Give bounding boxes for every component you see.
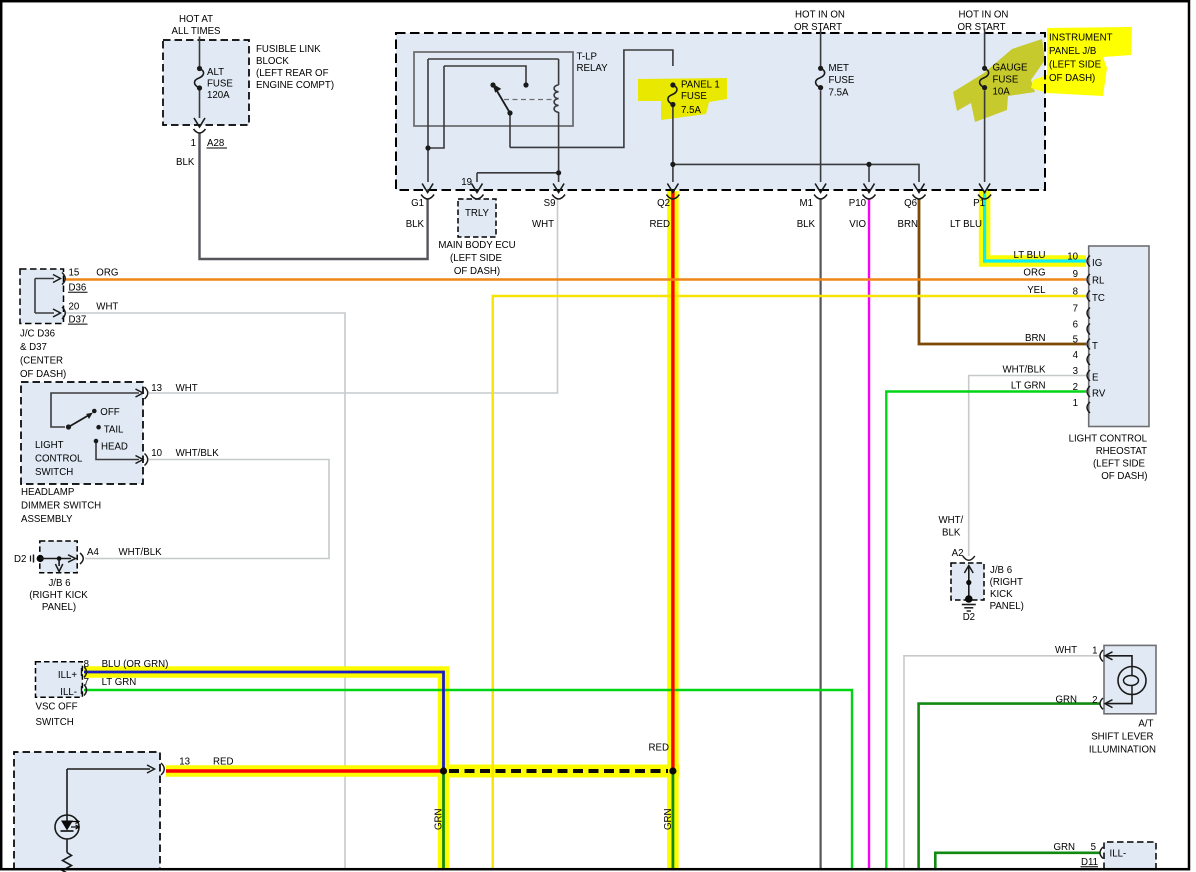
bottom-left lamp box fill: [14, 752, 160, 869]
svg-text:HOT IN ON: HOT IN ON: [959, 10, 1009, 21]
junction dot P10 branch: [866, 162, 871, 167]
svg-text:WHT: WHT: [532, 219, 554, 230]
relay coil arcs: [554, 85, 559, 112]
svg-text:7: 7: [1073, 304, 1078, 315]
wire RED lamp pin13 to junction: [166, 769, 444, 772]
junction dot small: [57, 556, 62, 561]
svg-text:HOT AT: HOT AT: [179, 14, 213, 25]
svg-text:BLK: BLK: [797, 219, 816, 230]
arrow down inside JB6: [58, 559, 60, 567]
svg-text:OR START: OR START: [957, 22, 1005, 33]
svg-text:Q2: Q2: [657, 198, 670, 209]
cup Q2: [666, 195, 679, 200]
wire to pin 13: [67, 768, 150, 770]
wire LT GRN VSC ILL-: [84, 690, 852, 868]
wire pin19 TRLY: [476, 173, 478, 182]
svg-text:GAUGE: GAUGE: [993, 63, 1029, 74]
VSC box border: [36, 662, 83, 698]
svg-text:FUSE: FUSE: [829, 75, 855, 86]
pin arc 1: [1087, 402, 1090, 413]
svg-text:LIGHT CONTROL: LIGHT CONTROL: [1069, 434, 1148, 445]
svg-text:(CENTER: (CENTER: [20, 355, 63, 366]
cup P1: [978, 195, 991, 200]
pin arrow 19: [472, 184, 483, 193]
fusible link block fill: [163, 40, 249, 125]
svg-text:(RIGHT: (RIGHT: [990, 577, 1023, 588]
svg-text:RHEOSTAT: RHEOSTAT: [1096, 446, 1147, 457]
pin arc 10 IG: [1087, 256, 1090, 267]
wire WHT D37 pin20 down: [66, 313, 345, 868]
light control switch box fill: [21, 382, 143, 484]
relay output loop to panel fuse: [510, 50, 673, 147]
main ECU box border: [396, 33, 1045, 190]
relay wire B fixed contact: [444, 66, 526, 83]
highlight band BLU from VSC: [84, 672, 444, 771]
svg-text:E: E: [1092, 373, 1099, 384]
svg-text:WHT/: WHT/: [939, 515, 964, 526]
pin arrow P1: [979, 184, 990, 193]
svg-text:OF DASH): OF DASH): [20, 369, 66, 380]
svg-text:RED: RED: [649, 743, 669, 754]
arrow up inside: [964, 566, 973, 574]
cup P10: [863, 195, 876, 200]
svg-text:VSC OFF: VSC OFF: [36, 702, 78, 713]
svg-text:BLK: BLK: [176, 157, 195, 168]
pin arc A4: [80, 553, 83, 564]
relay arm pivot down: [509, 113, 511, 147]
svg-text:(RIGHT KICK: (RIGHT KICK: [29, 590, 88, 601]
pivot dot: [66, 424, 71, 429]
svg-text:FUSE: FUSE: [993, 75, 1019, 86]
wire ALT fuse: [199, 40, 201, 66]
wire between pins: [34, 279, 36, 314]
cup 19: [471, 195, 484, 200]
svg-text:HEADLAMP: HEADLAMP: [21, 487, 74, 498]
highlight band Q2 red + GRN column: [667, 191, 679, 868]
pin arrow D36 15: [53, 275, 61, 283]
svg-text:6: 6: [1073, 320, 1078, 331]
pin arrow Q2: [667, 184, 678, 193]
svg-text:T: T: [1092, 341, 1098, 352]
junction dot coil-S9-19: [556, 170, 561, 175]
J/C D36 D37 box fill: [20, 269, 64, 324]
wire LT GRN rheostat pin2 RV down: [886, 392, 1086, 869]
svg-text:ILL-: ILL-: [60, 687, 77, 698]
svg-text:SWITCH: SWITCH: [35, 467, 73, 478]
svg-text:LT BLU: LT BLU: [1014, 250, 1046, 261]
terminal dot bottom: [965, 595, 973, 603]
T-LP relay box border: [414, 52, 573, 126]
svg-text:10: 10: [151, 448, 162, 459]
pin arc D11 5: [1100, 847, 1103, 859]
svg-text:(LEFT SIDE: (LEFT SIDE: [450, 253, 503, 264]
wire BRN Q6 to rheostat pin5: [919, 199, 1086, 344]
pin arc AT 2: [1100, 698, 1103, 709]
TRLY box fill: [458, 199, 496, 237]
svg-text:OFF: OFF: [100, 407, 119, 418]
relay dashed actuator link: [504, 99, 553, 101]
svg-text:120A: 120A: [207, 90, 230, 101]
svg-text:OF DASH): OF DASH): [1049, 73, 1095, 84]
pin arc D37 20: [62, 307, 65, 319]
svg-text:T-LP: T-LP: [577, 52, 597, 63]
bulb wiring: [1106, 656, 1132, 704]
wire WHT S9 to switch pin13: [149, 199, 558, 393]
wire down to LED: [66, 769, 68, 815]
svg-text:2: 2: [1073, 382, 1078, 393]
J/B 6 left box fill: [40, 541, 77, 573]
svg-text:15: 15: [69, 268, 80, 279]
svg-text:GRN: GRN: [1055, 695, 1077, 706]
svg-text:WHT: WHT: [1055, 645, 1077, 656]
wire RED Q2 down: [671, 191, 674, 771]
svg-text:(LEFT SIDE: (LEFT SIDE: [1049, 60, 1102, 71]
arrow right A4: [68, 555, 76, 562]
svg-text:(LEFT REAR OF: (LEFT REAR OF: [256, 68, 329, 79]
pin arc 9 RL: [1087, 274, 1090, 285]
wire GRN D11 pin5: [935, 853, 1100, 868]
svg-text:LT GRN: LT GRN: [102, 677, 137, 688]
svg-text:MAIN BODY ECU: MAIN BODY ECU: [438, 240, 515, 251]
svg-text:INSTRUMENT: INSTRUMENT: [1049, 33, 1113, 44]
svg-text:FUSE: FUSE: [681, 91, 707, 102]
svg-text:8: 8: [1073, 287, 1078, 298]
wire GRN A/T pin2: [919, 704, 1100, 868]
wire MET fuse column: [820, 33, 822, 66]
J/C D36 D37 box border: [20, 269, 64, 324]
svg-text:RV: RV: [1092, 389, 1106, 400]
svg-text:ENGINE COMPT): ENGINE COMPT): [256, 80, 334, 91]
svg-text:SHIFT LEVER: SHIFT LEVER: [1091, 732, 1153, 743]
pin arc 6: [1087, 324, 1090, 335]
wire pin13 to pivot: [51, 393, 139, 427]
pin arrow A28 fusible: [194, 118, 205, 127]
pin arrow 13 lamp: [147, 765, 155, 773]
relay contact dot NO: [490, 82, 495, 87]
wire WHT A/T pin1: [904, 656, 1100, 868]
pin arc 4: [1087, 354, 1090, 365]
svg-text:BLU (OR GRN): BLU (OR GRN): [102, 659, 169, 670]
svg-text:3: 3: [1073, 366, 1078, 377]
pin arc 7: [1087, 308, 1090, 319]
svg-text:GRN: GRN: [1053, 842, 1075, 853]
VSC off switch box fill: [36, 662, 83, 698]
svg-text:WHT/BLK: WHT/BLK: [1002, 365, 1046, 376]
svg-text:BLK: BLK: [942, 528, 961, 539]
main body ECU / instrument panel J/B box fill: [396, 33, 1045, 190]
svg-text:1: 1: [1073, 398, 1078, 409]
svg-text:D2: D2: [14, 554, 26, 565]
relay pivot dot: [507, 110, 512, 115]
junction dot wireA-G1: [425, 145, 430, 150]
svg-text:BLOCK: BLOCK: [256, 56, 289, 67]
wire BLK M1 down: [819, 199, 821, 868]
wire dashed link between junctions: [449, 769, 668, 773]
svg-text:BRN: BRN: [898, 219, 918, 230]
svg-text:ORG: ORG: [1023, 268, 1045, 279]
pin arc 3 E: [1087, 370, 1090, 381]
fuse symbol GAUGE: [980, 66, 989, 90]
LED triangle: [61, 821, 73, 831]
svg-text:PANEL 1: PANEL 1: [681, 80, 720, 91]
wire top of LED stem: [66, 815, 68, 821]
contact dot TAIL: [96, 425, 101, 430]
svg-text:ORG: ORG: [96, 268, 118, 279]
svg-text:P1: P1: [973, 198, 985, 209]
svg-text:D2: D2: [963, 612, 975, 623]
contact dot OFF: [92, 409, 97, 414]
svg-text:ASSEMBLY: ASSEMBLY: [21, 514, 73, 525]
fusible link block border: [163, 40, 249, 125]
relay wire A coil top: [428, 58, 559, 60]
svg-text:9: 9: [1073, 269, 1078, 280]
wire ORG D36 pin15 to rheostat pin9: [66, 278, 1086, 280]
svg-text:BLK: BLK: [406, 219, 425, 230]
pin arc 13 lamp: [161, 763, 164, 775]
wire S9 arrow: [558, 173, 560, 182]
highlight blob GAUGE FUSE (inside box, olive): [953, 39, 1045, 122]
wire BLK A28 to G1: [200, 134, 428, 260]
svg-text:CONTROL: CONTROL: [35, 454, 83, 465]
wire GRN below junction right: [672, 771, 675, 868]
pin tick D2 left: [33, 555, 35, 563]
svg-text:7: 7: [84, 677, 89, 688]
svg-text:J/B 6: J/B 6: [48, 578, 70, 589]
relay switch arm: [497, 91, 510, 113]
pin arc 5 T: [1087, 339, 1090, 350]
rheostat box border: [1089, 246, 1149, 427]
highlight blob INSTRUMENT PANEL J/B text: [1031, 27, 1132, 96]
svg-text:HOT IN ON: HOT IN ON: [795, 10, 845, 21]
bottom-left lamp box border: [14, 752, 160, 870]
relay coil line: [558, 59, 560, 85]
wire LT BLU P1 to rheostat pin10: [985, 191, 1086, 261]
contact dot HEAD: [94, 439, 99, 444]
bulb circle: [1118, 667, 1146, 695]
svg-text:YEL: YEL: [1027, 285, 1046, 296]
svg-text:PANEL): PANEL): [990, 601, 1024, 612]
svg-text:ALT: ALT: [207, 67, 224, 78]
svg-text:13: 13: [179, 757, 190, 768]
resistor zigzag: [63, 853, 72, 872]
cup S9: [552, 195, 565, 200]
svg-text:HEAD: HEAD: [101, 442, 128, 453]
highlight band dashed link: [437, 765, 679, 778]
svg-text:GRN: GRN: [434, 808, 445, 830]
J/B6 right box border: [951, 563, 984, 600]
wire WHT/BLK rheostat pin3 E to A2: [969, 376, 1086, 557]
svg-text:ILLUMINATION: ILLUMINATION: [1089, 745, 1156, 756]
J/B 6 right box fill: [951, 563, 984, 600]
LED circle: [55, 815, 79, 839]
svg-text:WHT: WHT: [176, 383, 198, 394]
svg-text:SWITCH: SWITCH: [36, 717, 74, 728]
highlight band RED horizontal: [166, 765, 444, 777]
svg-text:TC: TC: [1092, 293, 1105, 304]
svg-text:10A: 10A: [993, 87, 1011, 98]
junction dot panel fuse row: [670, 162, 675, 167]
D11 ILL- box fill: [1104, 842, 1156, 869]
pin arrow 10: [136, 456, 144, 464]
wire GAUGE fuse column: [984, 33, 986, 66]
wire P10 branch: [868, 164, 870, 182]
light control rheostat box fill: [1089, 246, 1149, 427]
svg-text:RED: RED: [650, 219, 670, 230]
pin arc AT 1: [1100, 650, 1103, 662]
relay contact dot NC: [523, 82, 528, 87]
svg-text:13: 13: [151, 383, 162, 394]
LED arrows: [71, 820, 79, 824]
pin arc ILL+: [84, 667, 87, 678]
svg-text:8: 8: [84, 659, 89, 670]
pin arc 2 RV: [1087, 386, 1090, 397]
stub hot at all times: [199, 37, 201, 41]
svg-text:WHT/BLK: WHT/BLK: [119, 547, 163, 558]
svg-text:IG: IG: [1092, 258, 1102, 269]
svg-text:GRN: GRN: [663, 808, 674, 830]
terminal dot D2: [37, 555, 44, 562]
pin arrow G1: [422, 184, 433, 193]
svg-text:M1: M1: [800, 198, 813, 209]
pin arc D36 15: [62, 273, 65, 285]
pin arc ILL-: [84, 685, 87, 696]
highlight blob PANEL 1 FUSE: [638, 78, 727, 120]
wire D2 to A4: [40, 558, 71, 560]
wire inside JB6 right: [968, 567, 970, 598]
junction dot inside: [966, 580, 971, 585]
wire BLU VSC ILL+: [84, 672, 444, 768]
svg-text:4: 4: [1073, 350, 1079, 361]
svg-text:BRN: BRN: [1025, 333, 1045, 344]
svg-text:WHT: WHT: [96, 302, 118, 313]
wire GRN below junction left: [442, 771, 445, 868]
svg-text:19: 19: [461, 177, 472, 188]
cup G1: [421, 195, 434, 200]
svg-text:Q6: Q6: [904, 198, 917, 209]
svg-text:7.5A: 7.5A: [681, 105, 701, 116]
svg-text:7.5A: 7.5A: [829, 87, 849, 98]
D11 box border: [1104, 842, 1156, 869]
highlight band P1 LT BLU: [985, 191, 1086, 261]
svg-text:DIMMER SWITCH: DIMMER SWITCH: [21, 500, 101, 511]
wire VIO P10 down: [868, 199, 870, 868]
wire LED to resistor: [66, 839, 68, 853]
svg-text:TRLY: TRLY: [465, 208, 490, 219]
svg-text:20: 20: [69, 302, 80, 313]
svg-text:J/C D36: J/C D36: [20, 329, 55, 340]
svg-text:FUSIBLE LINK: FUSIBLE LINK: [256, 44, 321, 55]
stub hot in on 1: [820, 29, 822, 34]
svg-text:A2: A2: [952, 548, 964, 559]
svg-text:ILL-: ILL-: [1110, 849, 1127, 860]
svg-text:PANEL): PANEL): [42, 602, 76, 613]
svg-text:LT BLU: LT BLU: [950, 219, 982, 230]
svg-text:A4: A4: [87, 547, 99, 558]
pin arc 10: [145, 454, 148, 466]
svg-text:LT GRN: LT GRN: [1011, 381, 1046, 392]
svg-text:WHT/BLK: WHT/BLK: [176, 448, 220, 459]
pin arrow S9: [553, 184, 564, 193]
wire panel1 fuse to junction: [672, 107, 674, 182]
arrow left AT2: [1105, 700, 1113, 708]
fuse symbol PANEL 1: [668, 82, 677, 107]
arrow left AT1: [1105, 652, 1113, 660]
svg-text:1: 1: [1092, 646, 1097, 657]
svg-text:VIO: VIO: [849, 219, 866, 230]
svg-text:PANEL J/B: PANEL J/B: [1049, 46, 1096, 57]
svg-text:LIGHT: LIGHT: [35, 440, 64, 451]
highlight band GRN column left: [438, 771, 450, 868]
svg-text:OF DASH): OF DASH): [1101, 471, 1147, 482]
wire HEAD to pin10: [96, 441, 139, 460]
TRLY box border: [458, 199, 496, 237]
switch arm light control: [69, 415, 90, 427]
pin arrow D37 20: [53, 309, 61, 317]
wire WHT/BLK switch pin10 to A4: [85, 460, 329, 559]
wire YEL to rheostat pin8: [493, 296, 1086, 868]
svg-text:(LEFT SIDE: (LEFT SIDE: [1093, 459, 1146, 470]
wire G1 arrow: [427, 148, 429, 182]
stub hot in on 2: [984, 29, 986, 34]
svg-text:RL: RL: [1092, 276, 1105, 287]
cup A28: [194, 129, 206, 133]
pin arrow Q6: [914, 184, 925, 193]
J/B6 left box border: [40, 541, 77, 573]
svg-text:ILL+: ILL+: [58, 670, 77, 681]
ground symbol: [962, 605, 976, 612]
svg-text:OF DASH): OF DASH): [454, 266, 500, 277]
pin arrow P10: [864, 184, 875, 193]
svg-text:TAIL: TAIL: [104, 425, 124, 436]
svg-text:& D37: & D37: [20, 342, 47, 353]
svg-text:5: 5: [1091, 842, 1096, 853]
svg-text:MET: MET: [829, 63, 850, 74]
svg-text:J/B 6: J/B 6: [990, 565, 1012, 576]
svg-text:P10: P10: [849, 198, 867, 209]
cup above A2: [963, 556, 975, 560]
pin arc 13: [145, 387, 148, 399]
junction dot left: [440, 767, 447, 774]
svg-text:OR START: OR START: [794, 22, 842, 33]
svg-text:5: 5: [1073, 335, 1078, 346]
junction dot right: [669, 767, 676, 774]
svg-text:S9: S9: [544, 198, 556, 209]
cup M1: [814, 195, 827, 200]
pin arrow M1: [815, 184, 826, 193]
svg-text:RED: RED: [213, 757, 233, 768]
svg-text:A/T: A/T: [1138, 719, 1153, 730]
svg-text:FUSE: FUSE: [207, 79, 233, 90]
light control switch box border: [21, 382, 143, 484]
pin arc 8 TC: [1087, 291, 1090, 302]
fuse symbol ALT: [194, 66, 203, 91]
A/T shift lever illumination box fill: [1104, 645, 1156, 713]
wire junction row to Q6: [673, 164, 919, 182]
cup Q6: [913, 195, 926, 200]
svg-text:ALL TIMES: ALL TIMES: [172, 26, 222, 37]
bulb filament loop: [1131, 667, 1133, 695]
svg-text:RELAY: RELAY: [577, 63, 609, 74]
svg-text:10: 10: [1067, 252, 1078, 263]
fuse symbol MET: [816, 66, 825, 90]
svg-text:A28: A28: [207, 138, 224, 149]
svg-text:G1: G1: [411, 198, 424, 209]
svg-text:KICK: KICK: [990, 589, 1013, 600]
A/T illumination box border: [1104, 645, 1156, 713]
svg-text:2: 2: [1092, 695, 1097, 706]
pin arrow 13: [136, 389, 144, 397]
LED cathode bar: [61, 830, 74, 832]
